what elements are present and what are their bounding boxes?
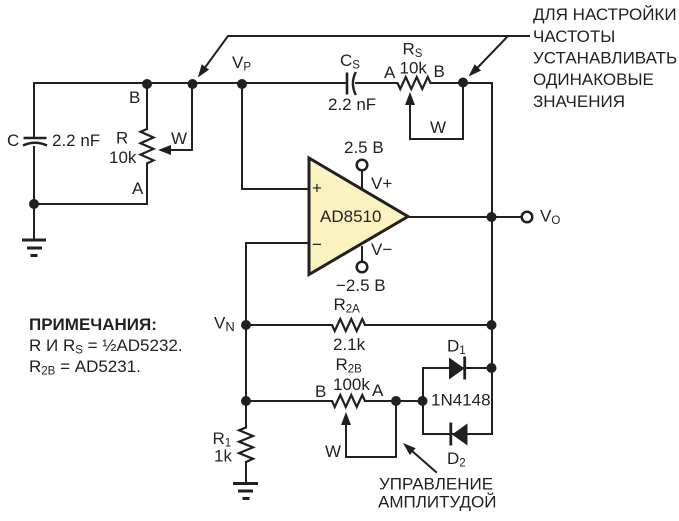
op-amp U1 AD8510 triangle [309, 158, 408, 275]
svg-text:V−: V− [371, 240, 392, 259]
arrowhead amplitude-control pointer [403, 443, 416, 455]
wire op-amp - input from Vn vertical [246, 243, 309, 401]
junction node diode bracket [418, 396, 428, 406]
wire D2 row [423, 433, 492, 435]
wire top rail between Cs and Rs [356, 82, 398, 84]
junction node top rail at R pot B [142, 79, 152, 89]
capacitor C plates [23, 138, 47, 146]
wire capacitor C bottom lead [33, 147, 35, 204]
svg-text:−: − [312, 235, 322, 254]
svg-text:A: A [384, 63, 396, 82]
svg-text:W: W [325, 442, 341, 461]
arrowhead R2B wiper [341, 412, 351, 425]
capacitor Cs plates [347, 72, 356, 95]
wire R2B row right segment to diode bracket [365, 400, 423, 402]
wire ground stub below C junction [33, 204, 35, 240]
terminal circle Vo [522, 212, 533, 223]
wire top rail with left corner down to capacitor C [34, 83, 346, 136]
svg-text:B: B [434, 62, 445, 81]
junction node output row [487, 212, 497, 222]
arrowhead callout right at Rs B junction [469, 64, 482, 76]
svg-text:2.1k: 2.1k [333, 335, 366, 354]
wire callout branch to Rs junction [478, 36, 508, 67]
junction node R2B left [241, 396, 251, 406]
resistor R2B zigzag 100k [332, 395, 365, 407]
wire callout line to text [205, 36, 529, 67]
svg-text:ЗНАЧЕНИЯ: ЗНАЧЕНИЯ [533, 92, 625, 111]
resistor Rs zigzag 10k [398, 77, 431, 89]
junction node D1 right [487, 363, 497, 373]
junction node Vp [237, 79, 247, 89]
svg-text:A: A [132, 179, 144, 198]
ground symbol under R1 [233, 484, 258, 499]
wire op-amp V- stub [361, 247, 363, 261]
svg-text:УПРАВЛЕНИЕ: УПРАВЛЕНИЕ [379, 475, 493, 494]
svg-text:C: C [7, 131, 19, 150]
svg-text:R: R [116, 129, 128, 148]
svg-text:ЧАСТОТЫ: ЧАСТОТЫ [533, 27, 615, 46]
junction node R2B wiper [391, 396, 401, 406]
resistor R1 zigzag 1k [239, 428, 253, 463]
svg-text:2.2 nF: 2.2 nF [52, 131, 100, 150]
diode D1 [449, 357, 466, 380]
ground symbol left [22, 240, 46, 256]
svg-text:АМПЛИТУДОЙ: АМПЛИТУДОЙ [378, 493, 496, 512]
junction node C bottom [29, 199, 39, 209]
svg-text:W: W [171, 129, 187, 148]
terminal circle V- [357, 262, 368, 273]
junction node Vn [241, 320, 251, 330]
annotation notes text [29, 315, 183, 378]
resistor R2A zigzag 2.1k [332, 319, 365, 331]
svg-text:10k: 10k [400, 59, 428, 78]
wire diode bracket left vertical [422, 368, 424, 434]
wire R pot wiper from top rail junction [170, 83, 192, 150]
svg-text:10k: 10k [109, 148, 137, 167]
svg-text:B: B [315, 382, 326, 401]
wire op-amp V+ stub [361, 171, 363, 190]
wire bottom-left from junction to R pot terminal A [34, 164, 147, 205]
wire top rail right segment with corner down right rail [431, 83, 493, 434]
wire amplitude-control pointer line [413, 452, 436, 472]
svg-text:−2.5 В: −2.5 В [336, 276, 386, 295]
svg-text:AD8510: AD8510 [320, 207, 381, 226]
wire R2A row right segment [365, 324, 492, 326]
resistor R pot zigzag 10k [141, 129, 154, 164]
arrowhead Rs wiper [405, 92, 415, 105]
annotation frequency setting text [533, 5, 677, 111]
wire op-amp output to Vo terminal [408, 216, 521, 218]
svg-text:2.5 В: 2.5 В [344, 138, 384, 157]
svg-text:+: + [312, 179, 322, 198]
arrowhead callout left at wiper junction [198, 64, 209, 77]
svg-text:R И RS = ½AD5232.: R И RS = ½AD5232. [29, 336, 183, 357]
terminal circle V+ [357, 160, 368, 171]
diode D2 [449, 423, 467, 446]
svg-text:ОДИНАКОВЫЕ: ОДИНАКОВЫЕ [533, 70, 654, 89]
wire Rs wiper loop W [410, 83, 463, 139]
svg-text:ДЛЯ НАСТРОЙКИ: ДЛЯ НАСТРОЙКИ [533, 5, 677, 24]
wire R2B wiper loop W [346, 401, 396, 457]
wire R2B row left segment [246, 400, 332, 402]
svg-text:УСТАНАВЛИВАТЬ: УСТАНАВЛИВАТЬ [533, 49, 677, 68]
svg-text:ПРИМЕЧАНИЯ:: ПРИМЕЧАНИЯ: [29, 315, 157, 334]
junction node Rs terminal B [458, 78, 468, 88]
svg-text:1N4148: 1N4148 [431, 391, 491, 410]
svg-text:1k: 1k [214, 447, 232, 466]
svg-text:A: A [372, 381, 384, 400]
svg-text:W: W [430, 118, 446, 137]
svg-text:100k: 100k [333, 375, 370, 394]
junction node wiper tap [188, 79, 198, 89]
wire Vp branch to op-amp + input [242, 83, 309, 189]
wire R1 bottom lead to ground [245, 462, 247, 483]
wire D1 row [423, 367, 492, 369]
junction node R2A right [487, 320, 497, 330]
wire R2A row left segment [246, 324, 332, 326]
wire R1 top lead [245, 401, 247, 428]
svg-text:V+: V+ [371, 174, 392, 193]
svg-text:2.2 nF: 2.2 nF [328, 95, 376, 114]
arrowhead R pot wiper [158, 145, 171, 155]
annotation amplitude control text [378, 475, 496, 512]
wire R pot terminal B lead [146, 83, 148, 129]
svg-text:B: B [129, 88, 140, 107]
